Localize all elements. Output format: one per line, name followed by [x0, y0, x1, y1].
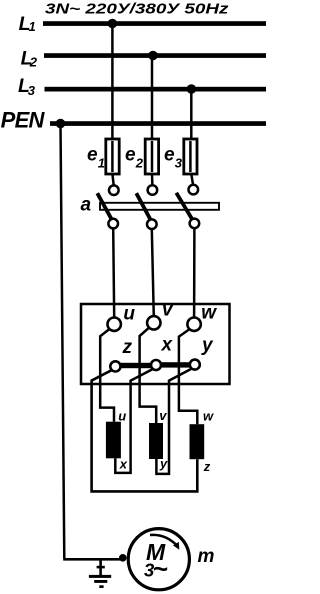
svg-text:2: 2: [135, 155, 144, 170]
svg-text:v: v: [162, 299, 174, 320]
svg-text:3: 3: [175, 155, 183, 170]
svg-text:~: ~: [153, 554, 168, 584]
svg-text:y: y: [201, 335, 214, 356]
svg-text:z: z: [122, 337, 133, 358]
svg-text:w: w: [203, 409, 214, 424]
svg-text:x: x: [119, 457, 128, 472]
svg-text:u: u: [118, 408, 126, 423]
svg-text:e: e: [125, 145, 136, 166]
svg-text:w: w: [201, 302, 217, 323]
svg-text:z: z: [203, 459, 211, 474]
svg-text:2: 2: [29, 55, 38, 70]
svg-text:x: x: [161, 335, 174, 356]
svg-text:PEN: PEN: [1, 107, 46, 132]
svg-text:3: 3: [28, 83, 36, 98]
svg-text:u: u: [123, 303, 135, 324]
svg-text:1: 1: [98, 155, 105, 170]
svg-text:m: m: [198, 546, 215, 567]
svg-text:y: y: [159, 456, 168, 471]
svg-text:a: a: [81, 194, 92, 215]
svg-text:v: v: [159, 408, 167, 423]
svg-text:e: e: [87, 145, 98, 166]
svg-text:e: e: [164, 145, 175, 166]
svg-text:1: 1: [29, 19, 36, 34]
svg-text:3N~ 220У/380У 50Hz: 3N~ 220У/380У 50Hz: [45, 2, 230, 18]
